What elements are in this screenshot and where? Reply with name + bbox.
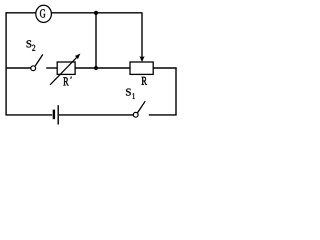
label S2 subscript 2 <box>32 45 35 51</box>
switch S2 contact circle <box>31 66 36 71</box>
rheostat R' arrowhead <box>75 54 81 60</box>
battery cell: long thin plate <box>57 105 59 124</box>
switch S1 contact circle <box>133 112 138 117</box>
wiper arrowhead pointing at R <box>139 56 144 62</box>
wire bottom horizontal left segment <box>6 114 53 116</box>
label S1 subscript 1 <box>133 93 135 99</box>
wire bottom horizontal middle segment <box>59 114 133 116</box>
wire middle right segment (R to right vertical) <box>153 67 177 69</box>
galvanometer G body circle <box>36 5 52 22</box>
wire right vertical <box>175 67 177 115</box>
label R letter R <box>142 77 147 85</box>
rheostat R' diagonal arrow shaft <box>50 57 77 85</box>
galvanometer G letter <box>40 9 45 17</box>
wire wiper stem from top wire <box>141 13 143 58</box>
label S2 letter S <box>27 40 32 47</box>
wire middle segment (R' to R) <box>75 67 131 69</box>
label R' letter R <box>63 77 68 85</box>
wire bottom horizontal right segment <box>149 114 177 116</box>
label R' prime mark <box>70 77 71 79</box>
wire top horizontal <box>6 12 143 14</box>
node junction dot on top wire <box>94 11 98 15</box>
switch S2 blade <box>35 55 43 67</box>
wire vertical branch between junctions <box>95 13 97 68</box>
wire left vertical <box>5 12 7 115</box>
wire middle left segment (left vertical to S2) <box>6 67 31 69</box>
rheostat R' body box <box>57 62 75 74</box>
wire middle segment (S2 to rheostat R') <box>46 67 57 69</box>
switch S1 blade <box>138 101 146 112</box>
label S1 letter S <box>126 89 131 96</box>
battery cell: short thick plate <box>53 110 55 120</box>
resistor R body box <box>130 62 153 74</box>
node junction dot on middle wire <box>94 66 98 70</box>
